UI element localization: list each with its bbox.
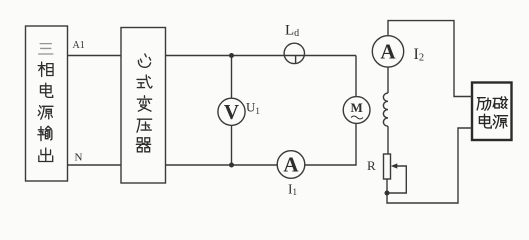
wire: I2 bottom to field winding (387, 67, 389, 93)
text 励磁电源 (excitation source) (477, 97, 507, 128)
wire: rheostat bottom to excitation source lower terminal (387, 128, 472, 203)
svg-text:M: M (350, 100, 362, 115)
junction: voltmeter tap bottom (229, 163, 234, 168)
voltmeter U1 (218, 98, 245, 125)
wire: rheostat wiper loop (387, 166, 406, 193)
svg-text:A1: A1 (73, 40, 85, 51)
wire: transformer bottom output to ammeter I1 (166, 164, 278, 166)
text 心式变压器 (core-type transformer) (136, 54, 152, 152)
box: three-phase source 三相电源输出 (26, 26, 68, 181)
svg-text:R: R (367, 158, 376, 173)
text 三相电源输出 (three-phase source output) (38, 44, 53, 162)
resistor R rheostat body (384, 154, 391, 179)
ammeter I1 (277, 151, 305, 179)
wire: I2 top loop to excitation source upper terminal (388, 21, 472, 97)
wiper arrow of rheostat R (391, 163, 398, 168)
wire: corner down to motor (355, 56, 357, 97)
wire N: source to transformer (68, 164, 122, 166)
junction: voltmeter tap top (229, 53, 234, 58)
junction: wiper tie to rheostat bottom (385, 191, 390, 196)
svg-text:N: N (75, 152, 83, 164)
box: excitation source 励磁电源 (472, 83, 512, 141)
motor tilde (351, 116, 363, 119)
wire: field winding to rheostat (387, 126, 389, 154)
inductor: field winding (383, 93, 388, 126)
inductor Ld (284, 43, 304, 63)
ammeter I2 (372, 36, 403, 67)
box: core-type transformer 心式变压器 (121, 28, 166, 184)
wire: voltmeter branch top (231, 56, 233, 99)
wire: transformer top output to Ld (166, 55, 357, 57)
svg-text:A: A (283, 153, 299, 177)
wire A1: source to transformer (68, 55, 122, 57)
svg-text:V: V (224, 100, 239, 124)
wire: voltmeter branch bottom (231, 125, 233, 165)
svg-text:A: A (380, 40, 396, 64)
motor M (343, 97, 370, 124)
wire: ammeter I1 to corner, up to motor (305, 123, 356, 165)
